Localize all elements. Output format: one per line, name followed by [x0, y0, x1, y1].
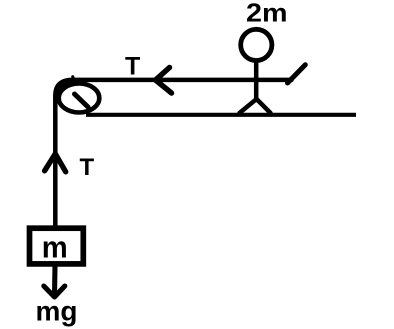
- pulley P: [59, 84, 100, 113]
- arrowhead tension T left on horizontal rope: [156, 68, 172, 94]
- svg-text:mg: mg: [36, 296, 78, 327]
- arrowhead tension T up on vertical rope: [45, 154, 66, 172]
- wire rope wrap over pulley: [57, 81, 70, 94]
- wire rope end tick at pulley top: [71, 77, 75, 80]
- stick figure head: [241, 29, 272, 60]
- pulley axle mark: [75, 94, 89, 107]
- block m box: [30, 228, 84, 264]
- svg-text:m: m: [42, 230, 68, 265]
- weight arrow mg down: [44, 266, 65, 297]
- svg-text:2m: 2m: [246, 0, 288, 27]
- stick figure legs: [240, 99, 271, 113]
- svg-text:T: T: [80, 154, 95, 181]
- stick figure body: [254, 61, 259, 100]
- wire rope horizontal + over pulley + vertical to block: [55, 80, 291, 227]
- svg-text:T: T: [125, 53, 140, 81]
- ground line: [86, 113, 356, 117]
- stick figure arm: [288, 65, 306, 83]
